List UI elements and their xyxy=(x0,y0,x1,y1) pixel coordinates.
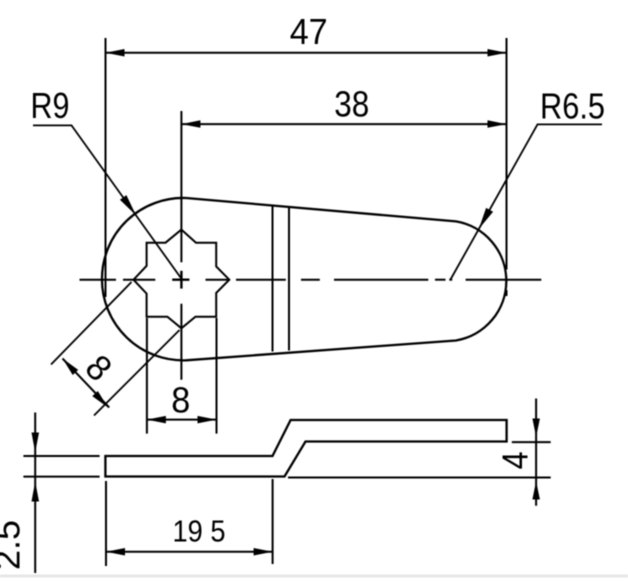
extension line left (47) xyxy=(105,38,107,297)
svg-text:R6.5: R6.5 xyxy=(540,86,605,127)
extension line right (47/38) xyxy=(506,38,508,270)
arrowhead 19.5 left xyxy=(106,548,125,556)
arrowhead diagonal 8 lower xyxy=(92,391,108,408)
svg-text:19 5: 19 5 xyxy=(173,513,226,548)
dimension line diagonal 8 xyxy=(63,359,110,408)
arrowhead R9 xyxy=(120,195,136,215)
arrowhead 4 bottom xyxy=(532,481,540,500)
dimension line 2.5 xyxy=(34,413,36,574)
svg-text:38: 38 xyxy=(334,84,369,125)
arrowhead 38 right xyxy=(488,120,507,128)
vertical centerline / 38 extension xyxy=(180,111,182,380)
bottom scan streak xyxy=(0,575,628,578)
star hole (double-square broach) xyxy=(134,230,230,329)
arrowhead 2.5 top xyxy=(32,433,40,453)
extension line A diagonal 8 (from star left tip) xyxy=(51,282,132,365)
dimension line 47 xyxy=(106,52,507,54)
svg-text:47: 47 xyxy=(290,11,328,52)
arrowhead diagonal 8 upper xyxy=(63,359,79,376)
svg-text:2.5: 2.5 xyxy=(0,520,28,570)
arrowhead 4 top xyxy=(532,419,540,438)
dimension line 4 xyxy=(535,399,537,506)
cam outline (top view) xyxy=(102,198,506,360)
arrowhead 19.5 right xyxy=(254,548,273,556)
svg-text:4: 4 xyxy=(495,451,536,469)
svg-text:R9: R9 xyxy=(31,85,70,126)
side view bar profile xyxy=(105,420,506,477)
leader R9 xyxy=(33,125,182,279)
extension line 4 (lower, bottom face extended) xyxy=(288,477,551,479)
extension line B diagonal 8 (from star bottom tip) xyxy=(94,330,180,416)
arrowhead 8 right xyxy=(198,416,217,424)
leader R6.5 xyxy=(451,124,603,279)
extension line 4 (upper, from right end bottom) xyxy=(512,441,551,443)
horizontal centerline xyxy=(80,279,542,281)
svg-text:8: 8 xyxy=(171,380,190,421)
arrowhead R6.5 xyxy=(479,208,493,229)
extension lines 19.5 xyxy=(105,481,107,566)
arrowhead 38 left xyxy=(181,120,200,128)
center cross xyxy=(172,279,189,281)
bend line right (vertical line on cam) xyxy=(288,207,290,350)
extension lines 2.5 (left) xyxy=(23,455,99,457)
extension lines horizontal 8 (star width) xyxy=(146,318,148,434)
dimension line 38 xyxy=(181,123,506,125)
arrowhead 47 left xyxy=(106,49,125,57)
arrowhead 2.5 bottom xyxy=(32,482,40,502)
dimension line 19.5 xyxy=(106,551,273,553)
dimension line horizontal 8 xyxy=(147,419,217,421)
bend line left (vertical line on cam) xyxy=(272,206,274,352)
arrowhead 47 right xyxy=(488,49,507,57)
arrowhead 8 left xyxy=(147,416,166,424)
